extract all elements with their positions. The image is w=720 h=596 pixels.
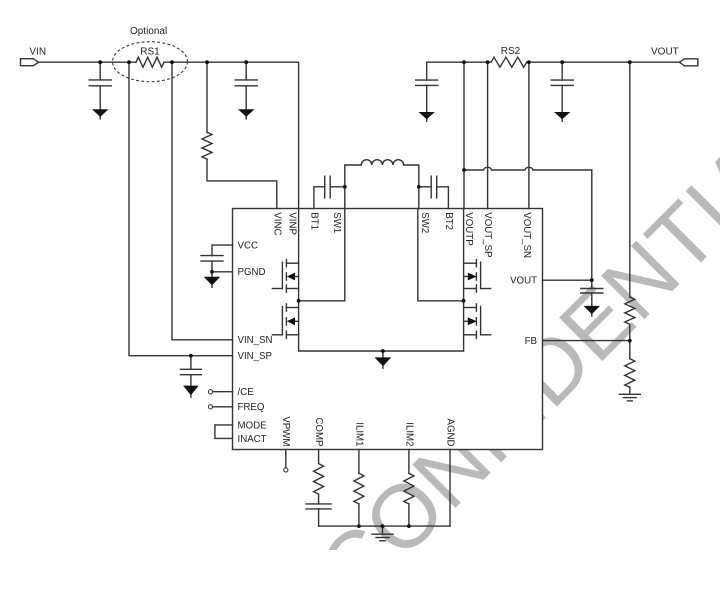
svg-text:RS2: RS2 <box>501 46 521 57</box>
svg-text:VOUT: VOUT <box>651 46 679 57</box>
svg-text:AGND: AGND <box>444 419 455 447</box>
svg-text:PGND: PGND <box>238 267 266 278</box>
svg-text:SW2: SW2 <box>419 212 430 233</box>
svg-text:FB: FB <box>525 336 537 347</box>
svg-text:VCC: VCC <box>238 241 258 252</box>
svg-text:ILIM1: ILIM1 <box>353 422 364 446</box>
svg-text:VIN: VIN <box>29 47 46 58</box>
svg-text:MODE: MODE <box>238 420 268 431</box>
svg-text:VINP: VINP <box>286 212 297 235</box>
svg-text:VIN_SN: VIN_SN <box>238 335 273 346</box>
svg-text:RS1: RS1 <box>140 47 160 58</box>
svg-text:VIN_SP: VIN_SP <box>238 351 272 362</box>
svg-text:VOUT_SP: VOUT_SP <box>482 212 493 257</box>
svg-text:FREQ: FREQ <box>238 402 265 413</box>
svg-text:/CE: /CE <box>238 387 255 398</box>
svg-text:Optional: Optional <box>130 26 167 37</box>
svg-text:SW1: SW1 <box>331 212 342 233</box>
svg-text:BT1: BT1 <box>309 212 320 230</box>
svg-text:VOUT: VOUT <box>510 276 537 287</box>
svg-text:VINC: VINC <box>271 212 282 235</box>
svg-text:ILIM2: ILIM2 <box>403 422 414 446</box>
svg-text:VOUTP: VOUTP <box>463 212 474 245</box>
svg-text:COMP: COMP <box>313 417 324 446</box>
svg-text:VOUT_SN: VOUT_SN <box>521 212 532 258</box>
svg-text:VPWM: VPWM <box>280 416 291 446</box>
svg-text:BT2: BT2 <box>443 212 454 230</box>
svg-text:INACT: INACT <box>238 434 267 445</box>
